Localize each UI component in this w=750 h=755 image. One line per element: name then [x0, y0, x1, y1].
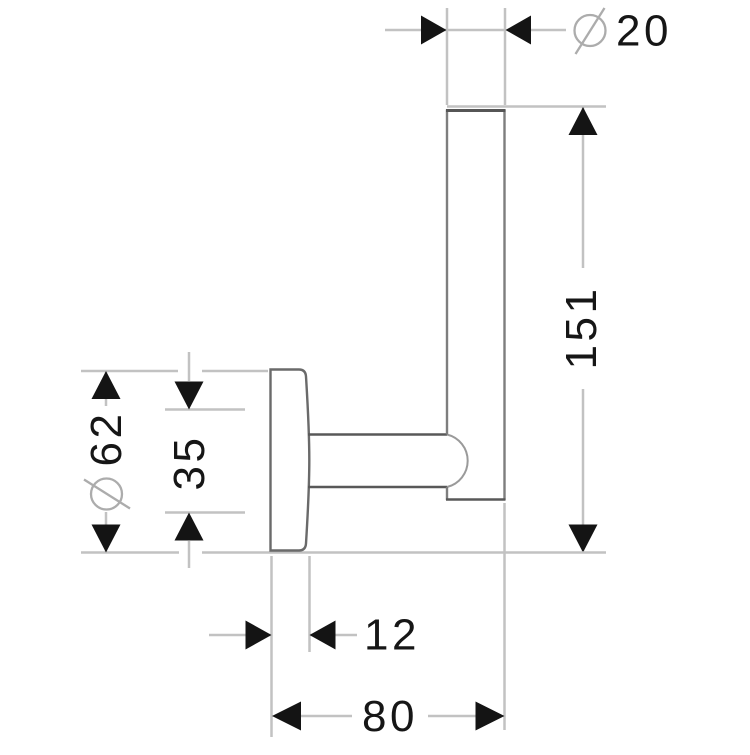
151 dim line upper segment — [582, 107, 585, 268]
12 right extension line — [308, 556, 311, 652]
dim line between dia20 arrows — [447, 29, 505, 32]
12 left extension line — [270, 556, 273, 737]
80 arrow left — [272, 702, 301, 731]
dia62 dim line upper segment — [105, 371, 108, 406]
bottom extension line (dia62 / 151 shared) — [81, 551, 179, 554]
12 right leader — [310, 634, 357, 637]
dia62 arrow up — [92, 371, 121, 399]
svg-text:62: 62 — [82, 411, 131, 467]
dia20 left extension line — [446, 8, 449, 105]
wall plate (rosette side view) — [271, 370, 310, 551]
35 bottom extension line — [165, 511, 245, 514]
151 top extension line — [447, 105, 606, 108]
dia62 arrow down — [92, 525, 121, 553]
svg-text:35: 35 — [165, 435, 214, 491]
svg-text:80: 80 — [362, 692, 418, 741]
svg-text:12: 12 — [364, 611, 420, 660]
35 arrow up (below span) — [175, 513, 204, 541]
tube top cap — [446, 109, 506, 112]
arm rounded end cap — [447, 435, 468, 488]
holder arm top edge — [308, 433, 447, 435]
svg-text:20: 20 — [616, 7, 672, 56]
35 dim line bottom tail — [188, 541, 191, 568]
vertical tube right edge — [503, 110, 505, 501]
dia20 arrow right — [506, 16, 532, 45]
35 top extension line — [165, 408, 245, 411]
vertical tube left edge lower step — [446, 487, 448, 500]
151 arrow up — [569, 107, 598, 135]
12 arrow right (points right at left ext) — [246, 621, 272, 650]
vertical tube left edge upper — [446, 110, 448, 435]
12 left leader — [209, 634, 271, 637]
tube bottom edge — [446, 498, 506, 500]
151 arrow down — [569, 525, 598, 553]
dia20 right extension line — [504, 8, 507, 105]
80 right extension line — [503, 503, 506, 730]
80 arrow right — [476, 702, 505, 731]
svg-text:151: 151 — [557, 286, 606, 370]
80 dim line left segment — [300, 715, 352, 718]
80 dim line right segment — [428, 715, 477, 718]
12 arrow left (points left at right ext) — [310, 621, 336, 650]
dia62 top extension line segments — [81, 370, 178, 373]
holder arm bottom edge — [308, 486, 447, 488]
dia62 dim line lower segment — [105, 512, 108, 552]
151 dim line lower segment — [582, 389, 585, 552]
35 arrow down (above span) — [175, 382, 204, 410]
dia20 phi symbol — [575, 8, 606, 54]
dia62 phi symbol — [84, 479, 130, 510]
leader right of dia20 — [531, 29, 566, 32]
35 dim line top tail — [188, 352, 191, 381]
dia20 arrow left — [421, 16, 447, 45]
extension line left of dia20 — [385, 29, 446, 32]
